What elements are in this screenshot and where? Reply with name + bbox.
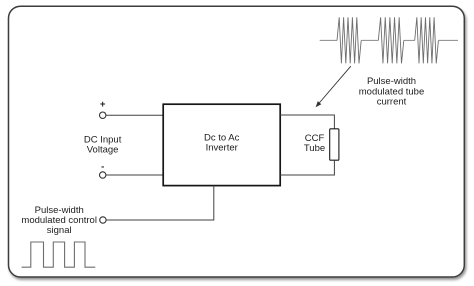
wire inverter to tube (top) [280, 115, 334, 129]
node - terminal [100, 162, 106, 179]
svg-text:Tube: Tube [304, 143, 325, 154]
svg-text:Inverter: Inverter [206, 143, 238, 154]
label Pulse-width modulated control signal [21, 205, 97, 236]
control signal square waveform [22, 242, 96, 267]
tube current waveform burst 2 [378, 17, 404, 63]
wire tube to inverter (bottom) [280, 160, 334, 175]
wire - terminal to inverter [106, 174, 163, 176]
CCF tube lamp [304, 129, 339, 160]
inverter block U1 [163, 104, 280, 185]
svg-text:+: + [100, 99, 106, 110]
svg-text:-: - [101, 162, 104, 173]
tube current waveform baseline [320, 39, 458, 41]
node + terminal [100, 99, 106, 118]
svg-text:current: current [377, 96, 407, 107]
wire + terminal to inverter [106, 114, 163, 116]
tube current waveform burst 1 [337, 17, 361, 63]
wire control terminal to inverter bottom [106, 186, 214, 220]
label Pulse-width modulated tube current [359, 76, 425, 107]
node control terminal [100, 217, 106, 223]
leader arrow to tube wire [316, 66, 351, 107]
tube current waveform burst 3 [415, 17, 439, 63]
svg-text:signal: signal [47, 225, 72, 236]
label DC Input Voltage [84, 134, 122, 155]
svg-text:Voltage: Voltage [87, 144, 119, 155]
